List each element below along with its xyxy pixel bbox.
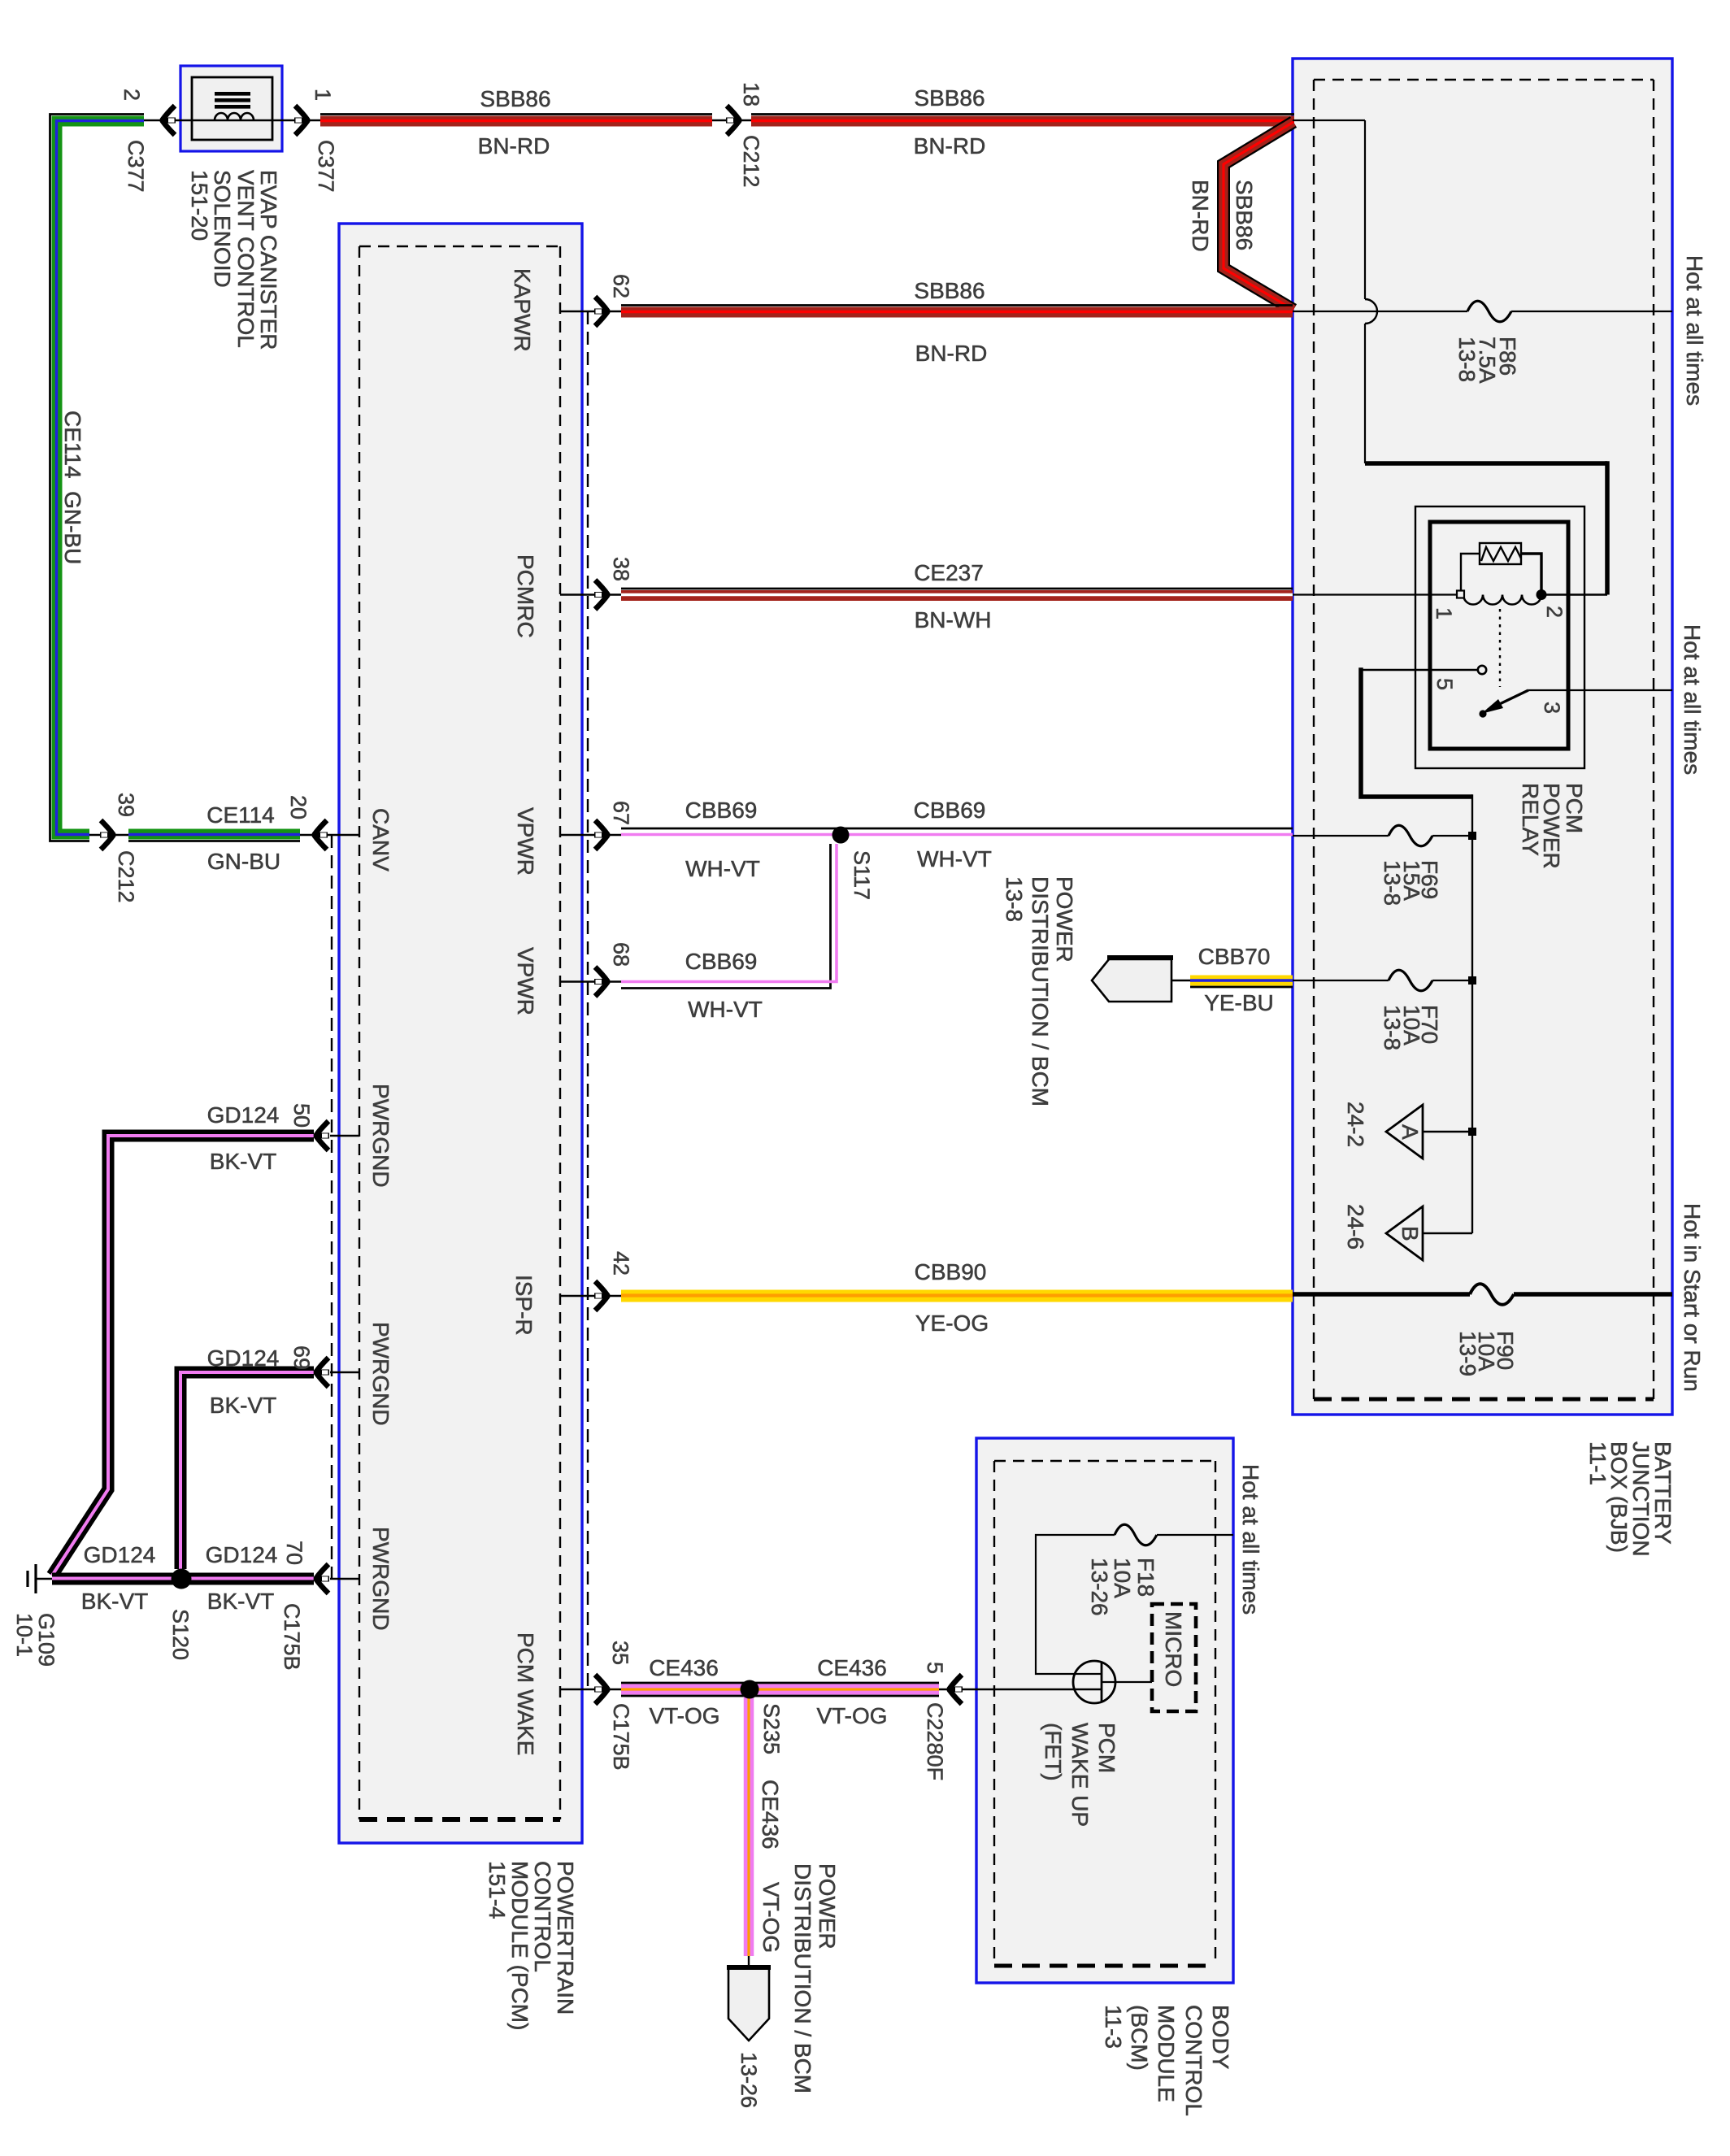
svg-text:151-4: 151-4 xyxy=(485,1861,510,1919)
svg-text:ISP-R: ISP-R xyxy=(511,1275,537,1336)
arrow PCM pin 38 xyxy=(594,580,607,610)
svg-text:S117: S117 xyxy=(850,850,874,900)
svg-text:VT-OG: VT-OG xyxy=(816,1703,887,1728)
wire CBB70 YE-BU xyxy=(1190,980,1293,987)
svg-text:35: 35 xyxy=(608,1641,632,1665)
svg-text:11-3: 11-3 xyxy=(1101,2005,1126,2049)
wire solenoid internal line to pin1/pin2 xyxy=(144,120,192,121)
svg-text:39: 39 xyxy=(114,793,138,817)
wire SBB86 BN-RD loop outside BJB xyxy=(1224,122,1293,310)
relay dotted link xyxy=(1499,609,1501,687)
wire PCM pin 68 stub xyxy=(560,980,621,982)
arrow PCM pin 35 xyxy=(594,1675,607,1704)
svg-text:PCM WAKE: PCM WAKE xyxy=(513,1632,538,1755)
wire SBB86 BN-RD segment C212 to BJB xyxy=(751,115,1294,122)
arrow PCM pin 67 xyxy=(594,820,607,850)
svg-text:CBB90: CBB90 xyxy=(915,1259,987,1284)
svg-text:PWRGND: PWRGND xyxy=(368,1322,393,1426)
relay coil xyxy=(1463,595,1541,605)
wire BCM pin 5 stub to FET xyxy=(939,1689,1102,1690)
svg-text:CE436: CE436 xyxy=(817,1655,887,1680)
wire PCM pin 50 stub xyxy=(330,1135,359,1137)
relay U1 PCM power relay xyxy=(1415,506,1584,768)
svg-text:BN-RD: BN-RD xyxy=(478,133,550,159)
svg-text:3: 3 xyxy=(1540,702,1564,714)
BJB internal: F90 line xyxy=(1293,1292,1470,1297)
body control module BCM box xyxy=(976,1438,1233,1983)
svg-text:WH-VT: WH-VT xyxy=(688,997,763,1022)
svg-text:C212: C212 xyxy=(114,850,138,903)
arrow solenoid pin 1 xyxy=(294,106,307,135)
powertrain control module PCM box xyxy=(339,224,582,1843)
svg-text:C2280F: C2280F xyxy=(923,1702,947,1780)
evap canister vent control solenoid box xyxy=(180,66,282,151)
svg-text:13-8: 13-8 xyxy=(1002,876,1027,922)
wire GD124 BK-VT ground horizontal through S120 to pin 70 xyxy=(52,1572,314,1585)
svg-text:POWER: POWER xyxy=(1052,876,1077,963)
svg-text:PWRGND: PWRGND xyxy=(368,1084,393,1188)
svg-text:GN-BU: GN-BU xyxy=(207,849,280,874)
svg-text:20: 20 xyxy=(286,795,311,819)
wire CE114 GN-BU solenoid pin2 to C212 xyxy=(50,115,145,841)
svg-text:CE237: CE237 xyxy=(914,560,984,585)
svg-text:5: 5 xyxy=(1432,678,1457,690)
svg-text:DISTRIBUTION / BCM: DISTRIBUTION / BCM xyxy=(790,1863,815,2093)
svg-text:RELAY: RELAY xyxy=(1518,783,1543,856)
wire PCM pin 69 stub xyxy=(330,1371,359,1373)
wire PCM pin 62 stub xyxy=(560,311,621,312)
svg-text:CE436: CE436 xyxy=(649,1655,719,1680)
svg-text:18: 18 xyxy=(739,82,763,106)
relay pin1 terminal xyxy=(1457,591,1464,598)
connection triangle A 24-2 xyxy=(1386,1105,1423,1158)
transistor Q1 PCM wake up FET xyxy=(1073,1661,1152,1703)
BJB internal: F86 line xyxy=(1293,311,1467,312)
MICRO dashed box xyxy=(1152,1604,1196,1711)
svg-text:10A: 10A xyxy=(1110,1558,1135,1598)
svg-text:PCMRC: PCMRC xyxy=(513,554,538,638)
svg-text:BODY: BODY xyxy=(1208,2005,1233,2070)
wire C212 pin18 gap xyxy=(712,120,751,121)
svg-text:C377: C377 xyxy=(124,140,148,193)
svg-text:10-1: 10-1 xyxy=(12,1613,37,1657)
wire GD124 BK-VT pin 69 branch to S120 xyxy=(180,1372,314,1569)
svg-text:C377: C377 xyxy=(314,140,338,193)
svg-text:PCM: PCM xyxy=(1562,783,1587,833)
svg-text:(BCM): (BCM) xyxy=(1127,2005,1152,2071)
wire C212 pin39 gap xyxy=(89,834,128,836)
svg-text:C175B: C175B xyxy=(280,1603,304,1671)
svg-text:CBB70: CBB70 xyxy=(1198,944,1271,969)
svg-text:WH-VT: WH-VT xyxy=(917,846,992,872)
arrow PCM pin 20 xyxy=(315,820,328,850)
BJB internal: F70 line xyxy=(1293,980,1389,981)
fuse F70 10A xyxy=(1389,970,1432,991)
svg-text:1: 1 xyxy=(311,89,335,101)
svg-text:MODULE: MODULE xyxy=(1154,2005,1179,2102)
svg-text:GD124: GD124 xyxy=(84,1542,156,1567)
relay resistor xyxy=(1480,543,1521,564)
svg-text:(FET): (FET) xyxy=(1041,1723,1066,1781)
svg-text:24-2: 24-2 xyxy=(1343,1102,1368,1147)
splice S120 xyxy=(172,1569,192,1589)
svg-text:C212: C212 xyxy=(739,135,763,188)
svg-text:62: 62 xyxy=(609,274,633,298)
wire PCM pin 20 stub xyxy=(300,834,359,836)
svg-text:BN-RD: BN-RD xyxy=(914,133,986,159)
svg-text:67: 67 xyxy=(609,801,633,825)
svg-text:SBB86: SBB86 xyxy=(480,86,550,111)
svg-text:42: 42 xyxy=(609,1251,633,1276)
svg-text:S235: S235 xyxy=(759,1703,784,1754)
relay pin5 contact xyxy=(1478,666,1486,674)
svg-text:CE114: CE114 xyxy=(206,802,275,828)
svg-text:G109: G109 xyxy=(34,1613,59,1667)
BCM internal: F18 line from hot at all times xyxy=(1157,1534,1233,1536)
svg-text:BN-RD: BN-RD xyxy=(915,341,988,366)
svg-text:PWRGND: PWRGND xyxy=(368,1527,393,1631)
svg-text:PCM: PCM xyxy=(1094,1723,1119,1773)
svg-text:POWER: POWER xyxy=(815,1863,840,1950)
wire GD124 BK-VT pin 50 to ground run xyxy=(52,1136,314,1576)
wire SBB86 BN-RD KAPWR segment pin 62 xyxy=(621,306,1293,313)
arrow PCM pin 68 xyxy=(594,967,607,997)
svg-text:DISTRIBUTION / BCM: DISTRIBUTION / BCM xyxy=(1028,876,1053,1106)
wire PCM pin 70 stub xyxy=(330,1578,359,1580)
svg-text:5: 5 xyxy=(923,1662,947,1674)
wire CBB69 WH-VT pin 68 branch from S117 xyxy=(621,844,837,989)
arrow C212 pin 39 xyxy=(100,820,113,850)
svg-text:VPWR: VPWR xyxy=(513,807,538,876)
fuse F86 7.5A xyxy=(1467,301,1511,322)
battery junction box BJB xyxy=(1293,59,1672,1415)
svg-text:CE436: CE436 xyxy=(758,1780,783,1850)
page reference tag 13-26 pentagon down xyxy=(727,1956,771,2041)
fuse F90 10A xyxy=(1470,1284,1514,1305)
wire SBB86 BN-RD segment C377 to C212 xyxy=(320,115,712,122)
svg-text:BN-WH: BN-WH xyxy=(915,607,992,632)
wire PCM pin 42 stub xyxy=(560,1295,621,1297)
svg-text:YE-BU: YE-BU xyxy=(1204,990,1274,1015)
wire CE436 VT-OG pin 35 to S235 to C2280F xyxy=(621,1683,939,1696)
svg-text:Hot at all times: Hot at all times xyxy=(1680,624,1705,775)
svg-text:Hot at all times: Hot at all times xyxy=(1238,1464,1263,1615)
svg-text:13-8: 13-8 xyxy=(1380,860,1405,906)
wire PCM pin 38 stub xyxy=(560,593,621,595)
wire PCM pin 35 stub xyxy=(560,1689,621,1690)
wire PCM pin 67 stub xyxy=(560,834,621,836)
splice S235 xyxy=(741,1680,759,1699)
BJB internal: SBB86 entry to relay coil xyxy=(1293,120,1365,121)
svg-text:70: 70 xyxy=(282,1541,306,1565)
svg-text:13-9: 13-9 xyxy=(1455,1331,1480,1376)
relay armature xyxy=(1488,690,1528,710)
wire CE237 BN-WH pin 38 xyxy=(621,589,1293,596)
svg-text:BN-RD: BN-RD xyxy=(1188,180,1213,252)
svg-text:CONTROL: CONTROL xyxy=(1181,2005,1206,2116)
wire relay pin3 to hot at all times xyxy=(1528,689,1672,691)
svg-text:A: A xyxy=(1397,1124,1423,1140)
svg-text:KAPWR: KAPWR xyxy=(510,268,535,352)
svg-text:2: 2 xyxy=(120,89,144,101)
arrow PCM pin 62 xyxy=(594,297,607,326)
svg-text:VPWR: VPWR xyxy=(513,947,538,1015)
svg-text:VT-OG: VT-OG xyxy=(649,1703,719,1728)
wire hop over F86 line xyxy=(1365,299,1377,324)
wire CBB69 WH-VT pin 67 xyxy=(621,828,1293,835)
svg-text:GD124: GD124 xyxy=(206,1542,278,1567)
arrow PCM pin 42 xyxy=(594,1281,607,1311)
svg-text:POWERTRAIN: POWERTRAIN xyxy=(553,1861,578,2015)
svg-text:CONTROL: CONTROL xyxy=(530,1861,555,1972)
arrow C212 pin 18 xyxy=(726,106,739,135)
splice S117 xyxy=(832,827,850,844)
svg-text:13-8: 13-8 xyxy=(1380,1005,1405,1050)
svg-text:MODULE (PCM): MODULE (PCM) xyxy=(507,1861,532,2030)
ground G109 xyxy=(28,1564,52,1593)
relay pin2 junction dot xyxy=(1537,589,1547,600)
svg-text:C175B: C175B xyxy=(609,1703,633,1771)
svg-text:24-6: 24-6 xyxy=(1343,1204,1368,1250)
svg-text:68: 68 xyxy=(609,942,633,967)
svg-text:MICRO: MICRO xyxy=(1161,1611,1186,1687)
svg-text:VT-OG: VT-OG xyxy=(759,1882,784,1953)
svg-text:S120: S120 xyxy=(168,1609,193,1660)
svg-text:BK-VT: BK-VT xyxy=(81,1589,148,1614)
junction dot F69 xyxy=(1468,832,1476,840)
arrow PCM pin 70 xyxy=(316,1564,329,1593)
arrow PCM pin 69 xyxy=(316,1358,329,1387)
svg-text:CBB69: CBB69 xyxy=(685,949,758,974)
svg-text:GD124: GD124 xyxy=(207,1102,280,1128)
svg-text:BK-VT: BK-VT xyxy=(207,1589,274,1614)
junction dot F70 xyxy=(1468,976,1476,985)
svg-text:CANV: CANV xyxy=(368,808,393,872)
connector dashed line left of PCM xyxy=(331,835,333,1579)
arrow solenoid pin 2 xyxy=(163,106,176,135)
wire relay pin5 to fuse feed xyxy=(1361,669,1477,671)
svg-text:WAKE UP: WAKE UP xyxy=(1067,1723,1093,1827)
svg-text:SBB86: SBB86 xyxy=(914,85,985,111)
svg-text:Hot at all times: Hot at all times xyxy=(1682,255,1707,406)
svg-text:2: 2 xyxy=(1542,606,1567,618)
svg-text:11-1: 11-1 xyxy=(1585,1441,1610,1485)
BJB internal: CE237 line to relay pin 1 xyxy=(1293,593,1461,595)
wire CBB90 YE-OG pin 42 xyxy=(621,1289,1293,1302)
svg-text:13-8: 13-8 xyxy=(1454,337,1480,382)
page reference tag CBB70 pentagon xyxy=(1092,958,1190,1002)
svg-text:F18: F18 xyxy=(1133,1558,1158,1597)
wire CE436 VT-OG branch from S235 down xyxy=(744,1695,754,1956)
svg-text:YE-OG: YE-OG xyxy=(915,1311,989,1336)
svg-text:EVAP CANISTER: EVAP CANISTER xyxy=(256,170,281,350)
svg-text:13-26: 13-26 xyxy=(1087,1558,1112,1616)
svg-text:38: 38 xyxy=(609,557,633,581)
svg-text:CBB69: CBB69 xyxy=(914,798,986,823)
wire CE114 GN-BU segment C212 to PCM pin 20 xyxy=(128,834,300,841)
svg-text:WH-VT: WH-VT xyxy=(685,856,760,881)
svg-text:CE114 GN-BU: CE114 GN-BU xyxy=(60,411,85,564)
connection triangle B 24-6 xyxy=(1386,1206,1423,1260)
svg-text:13-26: 13-26 xyxy=(737,2052,761,2108)
arrow BCM pin 5 xyxy=(950,1675,963,1704)
svg-text:Hot in Start or Run: Hot in Start or Run xyxy=(1680,1203,1705,1392)
arrow PCM pin 50 xyxy=(316,1121,329,1150)
svg-text:69: 69 xyxy=(289,1345,314,1370)
BJB internal: F69 line xyxy=(1293,835,1389,837)
connector C175B dashed line right of PCM xyxy=(587,311,589,1689)
svg-text:GD124: GD124 xyxy=(207,1345,280,1371)
svg-text:BK-VT: BK-VT xyxy=(210,1393,276,1418)
svg-text:151-20: 151-20 xyxy=(187,170,212,241)
fuse F18 10A xyxy=(1115,1524,1157,1545)
svg-text:SBB86: SBB86 xyxy=(914,278,985,303)
fuse F69 15A xyxy=(1389,825,1432,846)
svg-text:B: B xyxy=(1397,1226,1423,1241)
svg-text:VENT CONTROL: VENT CONTROL xyxy=(233,170,259,348)
svg-text:BK-VT: BK-VT xyxy=(210,1149,276,1174)
svg-text:SBB86: SBB86 xyxy=(1232,180,1257,250)
svg-text:CBB69: CBB69 xyxy=(685,798,758,823)
svg-text:SOLENOID: SOLENOID xyxy=(210,170,235,288)
svg-text:1: 1 xyxy=(1432,607,1456,619)
svg-text:50: 50 xyxy=(289,1103,314,1128)
